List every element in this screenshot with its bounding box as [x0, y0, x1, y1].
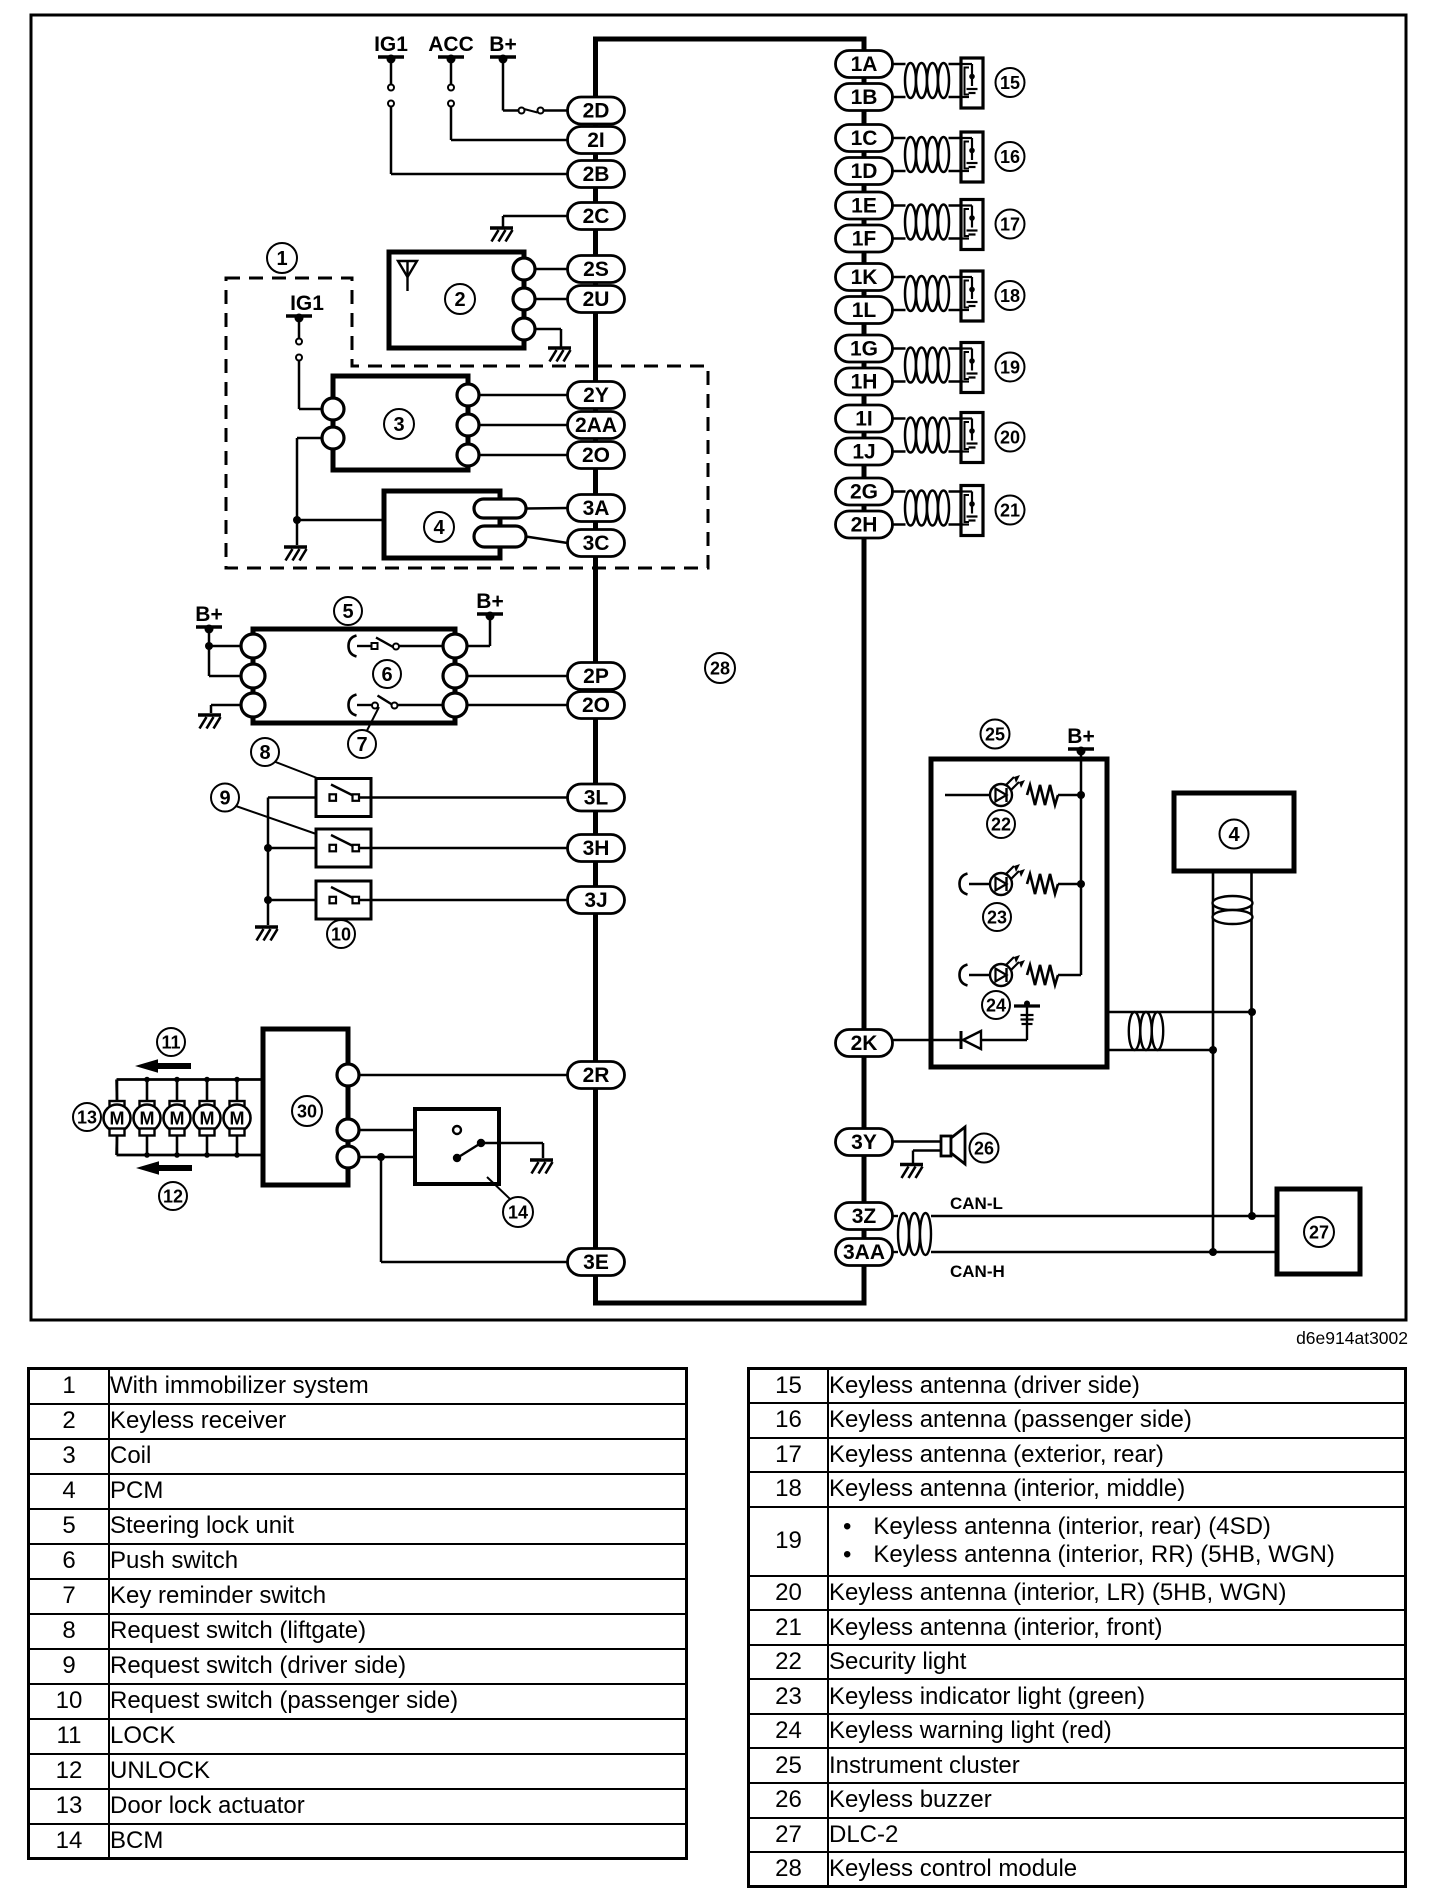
svg-text:2AA: 2AA	[575, 414, 617, 437]
svg-text:22: 22	[991, 814, 1011, 834]
svg-text:2R: 2R	[583, 1064, 610, 1087]
svg-text:2Y: 2Y	[583, 384, 609, 407]
svg-text:2G: 2G	[850, 481, 878, 504]
wire 3AA CAN-H	[893, 1251, 1278, 1253]
svg-text:21: 21	[1000, 500, 1020, 520]
PCM oval pin upper	[474, 499, 526, 518]
keyless antenna 15	[891, 58, 983, 108]
wire coil to 2AA	[479, 424, 568, 427]
svg-text:3AA: 3AA	[843, 1241, 885, 1264]
LOCK arrow 11	[135, 1059, 191, 1073]
junction cluster CAN-H	[1209, 1046, 1217, 1054]
svg-text:B+: B+	[195, 603, 222, 626]
svg-text:3A: 3A	[583, 497, 610, 520]
junction CAN-H	[1209, 1248, 1217, 1256]
svg-text:8: 8	[259, 742, 270, 764]
door lock pin 3	[337, 1146, 359, 1168]
wire steering to 2O	[467, 704, 568, 707]
BCM 14 box	[415, 1109, 499, 1184]
security light row wire	[945, 794, 1081, 797]
svg-text:4: 4	[1228, 824, 1240, 846]
coil left pin 2	[322, 427, 344, 449]
door lock motor M4	[194, 1077, 221, 1158]
connector 1K (right)	[836, 264, 893, 291]
PCM 4 label left	[424, 512, 454, 542]
BCM switch contacts	[453, 1126, 485, 1162]
switch on IG1 line	[388, 85, 394, 107]
instrument cluster 25 label	[981, 720, 1010, 749]
connector 1D (right)	[836, 158, 893, 185]
svg-text:B+: B+	[489, 33, 516, 56]
steering left pin 2	[241, 664, 265, 688]
immobilizer 1 label	[267, 243, 297, 273]
keyless antenna 21 label	[996, 496, 1025, 525]
wire door lock to BCM lower	[359, 1156, 453, 1159]
UNLOCK arrow 12	[136, 1161, 192, 1175]
connector 3L (left)	[568, 784, 625, 811]
connector 3E (left)	[568, 1249, 625, 1276]
terminal B+ cluster	[1067, 725, 1094, 756]
connector 2G (right)	[836, 478, 893, 505]
wire steering to 2P	[467, 675, 568, 678]
cluster CAN wire upper	[1107, 1011, 1252, 1013]
svg-text:4: 4	[433, 517, 445, 539]
svg-text:2H: 2H	[851, 514, 878, 537]
wire ACC upper	[450, 59, 453, 84]
svg-text:15: 15	[1000, 73, 1020, 93]
BCM 14 label	[487, 1177, 510, 1199]
svg-text:2D: 2D	[583, 100, 610, 123]
wire 3Z CAN-L	[893, 1215, 1278, 1217]
terminal B+ steering right	[476, 590, 503, 621]
svg-text:14: 14	[508, 1202, 528, 1222]
svg-text:12: 12	[163, 1186, 183, 1206]
svg-text:3Z: 3Z	[852, 1205, 877, 1228]
security light 22 label	[987, 810, 1015, 838]
keyless receiver 2 label	[445, 284, 475, 314]
connector 1F (right)	[836, 225, 893, 252]
svg-text:23: 23	[987, 907, 1007, 927]
coil right pin 2	[457, 414, 479, 436]
wire 3L row left	[268, 796, 329, 799]
wire switch to 2D	[544, 109, 568, 112]
svg-text:3E: 3E	[583, 1251, 609, 1274]
request switch common ground wire	[267, 798, 270, 926]
junction B+ steering	[205, 642, 213, 650]
junction switch9	[264, 844, 272, 852]
wire 3H row left	[268, 847, 329, 850]
svg-text:10: 10	[331, 924, 351, 944]
resistor security light	[1027, 785, 1058, 805]
wire ACC to 2I	[451, 107, 568, 141]
legend table right	[747, 1367, 1407, 1888]
key reminder switch 7	[349, 695, 444, 716]
svg-text:28: 28	[710, 658, 730, 678]
wire diode to sounder	[981, 1006, 1027, 1040]
ground request switches	[255, 927, 278, 941]
ground below coil	[284, 547, 307, 561]
wire B+ to steering pins	[209, 629, 242, 676]
connector 3A (left)	[568, 495, 625, 522]
wire IG1 lower	[391, 107, 568, 175]
steering right pin 2	[443, 664, 467, 688]
DLC-2 27 label	[1304, 1217, 1334, 1247]
steering lock 5 label	[334, 597, 362, 625]
steering left pin 3	[241, 693, 265, 717]
coil right pin 1	[457, 384, 479, 406]
connector 2I (left)	[568, 127, 625, 154]
wire 3J row left	[268, 899, 329, 902]
svg-text:20: 20	[1000, 427, 1020, 447]
connector 2O (left)	[568, 442, 625, 469]
coil left pin 1	[322, 398, 344, 420]
request switch driver 9 label	[233, 805, 322, 836]
PCM oval pin lower	[474, 526, 526, 547]
receiver pin 1	[513, 258, 535, 280]
switch on ACC line	[448, 85, 454, 107]
connector 2O (left)	[568, 692, 625, 719]
switch on immobilizer IG1 line	[296, 339, 302, 361]
svg-text:2O: 2O	[582, 694, 610, 717]
wire IG1 to 2B	[390, 59, 393, 84]
request switch driver 9	[316, 829, 371, 867]
steering right pin 3	[443, 693, 467, 717]
svg-text:13: 13	[77, 1107, 97, 1127]
svg-text:1I: 1I	[855, 408, 873, 431]
cluster CAN wire lower	[1107, 1049, 1213, 1051]
cluster sounder ground symbol	[1014, 1001, 1040, 1025]
connector 2R (left)	[568, 1062, 625, 1089]
indicator light row wire	[960, 874, 1082, 895]
door lock motor M1	[104, 1080, 131, 1156]
svg-text:1L: 1L	[852, 299, 877, 322]
wire switch9 to 3H	[359, 847, 568, 850]
connector 2H (right)	[836, 511, 893, 538]
wire IG1 immobilizer upper	[298, 318, 301, 338]
keyless antenna 20 label	[996, 423, 1025, 452]
resistor warning light	[1027, 965, 1058, 985]
terminal IG1	[374, 33, 408, 64]
svg-text:30: 30	[297, 1101, 317, 1121]
svg-text:1K: 1K	[851, 266, 878, 289]
PCM 4 label right	[1220, 820, 1249, 849]
junction BCM/3E	[377, 1153, 385, 1161]
svg-text:5: 5	[342, 601, 353, 623]
door lock pin 1	[337, 1064, 359, 1086]
svg-text:M: M	[230, 1109, 245, 1129]
svg-text:1A: 1A	[851, 53, 878, 76]
wire PCM to 3A	[526, 507, 568, 510]
keyless buzzer 26 label	[970, 1134, 999, 1163]
wire B+ right to steering	[467, 616, 490, 646]
PCM 4 box left	[384, 491, 500, 558]
twisted pair CAN	[898, 1213, 931, 1255]
keyless antenna 19	[891, 343, 983, 393]
svg-text:1E: 1E	[851, 195, 877, 218]
svg-text:2U: 2U	[583, 288, 610, 311]
connector 2B (left)	[568, 161, 625, 188]
push switch 6 label	[373, 660, 401, 688]
connector 2AA (left)	[568, 412, 625, 439]
steering left pin 1	[241, 634, 265, 658]
svg-text:M: M	[110, 1109, 125, 1129]
svg-text:3Y: 3Y	[851, 1131, 877, 1154]
connector 2U (left)	[568, 286, 625, 313]
svg-text:1H: 1H	[851, 371, 878, 394]
wire B+ to switch	[503, 59, 519, 111]
connector 1E (right)	[836, 192, 893, 219]
wire coil to 2Y	[479, 394, 568, 397]
connector 2C (left)	[568, 203, 625, 230]
request switch liftgate 8	[316, 779, 371, 817]
twisted pair cluster	[1129, 1012, 1163, 1050]
svg-text:2S: 2S	[583, 258, 609, 281]
svg-text:1B: 1B	[851, 86, 878, 109]
DLC-2 27 box	[1277, 1189, 1360, 1274]
keyless antenna 16	[891, 132, 983, 182]
cluster B+ bus wire	[1080, 751, 1083, 975]
svg-text:2C: 2C	[583, 205, 610, 228]
keyless antenna 19 label	[996, 353, 1025, 382]
ground below receiver	[548, 348, 571, 362]
security light 22	[990, 775, 1025, 806]
connector 1G (right)	[836, 335, 893, 362]
CAN vertical wire left	[1212, 871, 1215, 1252]
legend table left	[27, 1367, 688, 1860]
door lock motor M2	[134, 1077, 161, 1158]
svg-text:ACC: ACC	[428, 33, 474, 56]
svg-text:2B: 2B	[583, 163, 610, 186]
svg-text:3C: 3C	[583, 532, 610, 555]
svg-text:18: 18	[1000, 286, 1020, 306]
svg-text:1J: 1J	[852, 441, 875, 464]
connector 3H (left)	[568, 835, 625, 862]
svg-text:1G: 1G	[850, 338, 878, 361]
svg-text:3J: 3J	[584, 889, 607, 912]
svg-text:27: 27	[1309, 1222, 1329, 1242]
door lock pin 2	[337, 1119, 359, 1141]
keyless antenna 20	[891, 413, 983, 463]
svg-text:25: 25	[985, 724, 1005, 744]
svg-text:2K: 2K	[851, 1032, 878, 1055]
steering lock unit 5 box	[253, 629, 455, 723]
steering right pin 1	[443, 634, 467, 658]
connector 1H (right)	[836, 368, 893, 395]
connector 1J (right)	[836, 438, 893, 465]
svg-text:2P: 2P	[583, 665, 609, 688]
door lock actuator 13 label	[73, 1103, 101, 1131]
svg-text:IG1: IG1	[290, 292, 324, 315]
UNLOCK arrow 12 label	[159, 1182, 187, 1210]
terminal B+ top	[489, 33, 516, 64]
keyless antenna 15 label	[996, 68, 1025, 97]
antenna symbol in receiver	[398, 261, 417, 291]
svg-text:1: 1	[276, 248, 287, 270]
terminal IG1 immobilizer	[286, 292, 324, 323]
wire switch8 to 3L	[359, 796, 568, 799]
svg-text:6: 6	[381, 664, 392, 686]
svg-text:9: 9	[219, 788, 230, 810]
connector 1B (right)	[836, 84, 893, 111]
wire 2K to diode	[893, 1039, 962, 1042]
keyless receiver U2 box	[389, 252, 524, 348]
wire 2C to ground	[503, 216, 568, 227]
svg-text:2: 2	[454, 289, 465, 311]
keyless antenna 17 label	[996, 210, 1025, 239]
wire immobilizer IG1 to coil	[299, 361, 322, 410]
request switch passenger 10	[316, 881, 371, 919]
keyless buzzer 26	[941, 1127, 965, 1164]
wire receiver pin1 to 2S	[535, 268, 568, 271]
ground BCM	[530, 1160, 553, 1174]
svg-text:7: 7	[356, 734, 367, 756]
keyless warning light 24	[990, 955, 1025, 986]
svg-text:B+: B+	[1067, 725, 1094, 748]
LOCK arrow 11 label	[157, 1028, 185, 1056]
svg-text:1C: 1C	[851, 127, 878, 150]
ground steering left	[198, 715, 221, 729]
door lock actuator rails	[117, 1080, 264, 1156]
instrument cluster 25 box	[931, 759, 1107, 1067]
wire 3Y to buzzer	[893, 1142, 942, 1165]
door lock module 30 label	[292, 1096, 322, 1126]
wire coil pin2 to PCM and ground	[297, 438, 384, 545]
svg-text:3L: 3L	[584, 787, 609, 810]
connector 3C (left)	[568, 530, 625, 557]
connector 3J (left)	[568, 887, 625, 914]
keyless antenna 17	[891, 200, 983, 250]
switch on B+ line	[519, 108, 544, 114]
svg-text:IG1: IG1	[374, 33, 408, 56]
keyless antenna 18	[891, 271, 983, 321]
keyless antenna 18 label	[996, 281, 1025, 310]
connector 3Z (right)	[836, 1203, 893, 1230]
keyless warning light 24 label	[982, 991, 1010, 1019]
svg-text:M: M	[140, 1109, 155, 1129]
svg-text:B+: B+	[476, 590, 503, 613]
wire coil to 2O	[479, 454, 568, 457]
wire junction to 3E	[381, 1157, 568, 1262]
junction indicator light	[1077, 880, 1085, 888]
push switch 6	[349, 636, 444, 657]
svg-text:2O: 2O	[582, 444, 610, 467]
svg-text:26: 26	[974, 1138, 994, 1158]
svg-text:M: M	[200, 1109, 215, 1129]
request switch passenger 10 label	[327, 920, 355, 948]
wire receiver pin2 to 2U	[535, 298, 568, 301]
connector 3Y (right)	[836, 1129, 893, 1156]
svg-text:1D: 1D	[851, 160, 878, 183]
terminal ACC	[428, 33, 474, 64]
receiver pin 2	[513, 288, 535, 310]
keyless antenna 21	[891, 486, 983, 536]
svg-text:17: 17	[1000, 214, 1020, 234]
CAN vertical wire right	[1250, 871, 1253, 1216]
key reminder switch 7 label	[367, 707, 379, 731]
connector 1I (right)	[836, 405, 893, 432]
svg-text:M: M	[170, 1109, 185, 1129]
wire PCM to 3C	[526, 537, 568, 544]
keyless control module 28 label	[705, 653, 735, 683]
junction switch10	[264, 896, 272, 904]
keyless control module 28 outline	[596, 39, 865, 1303]
PCM 4 box right	[1174, 793, 1294, 871]
immobilizer system 1 dashed outline	[226, 278, 708, 568]
connector 1C (right)	[836, 125, 893, 152]
door lock motor M3	[164, 1077, 191, 1158]
svg-text:CAN-L: CAN-L	[950, 1194, 1003, 1213]
connector 1L (right)	[836, 297, 893, 324]
junction cluster CAN-L	[1248, 1008, 1256, 1016]
wire BCM switch to ground	[481, 1143, 543, 1158]
wire switch10 to 3J	[359, 899, 568, 902]
receiver pin 3	[513, 318, 535, 340]
svg-text:16: 16	[1000, 147, 1020, 167]
connector 2K (right)	[836, 1030, 893, 1057]
svg-text:2I: 2I	[587, 129, 605, 152]
wire receiver pin3 to ground	[535, 329, 561, 347]
svg-text:24: 24	[986, 995, 1006, 1015]
connector 2D (left)	[568, 97, 625, 124]
connector 3AA (right)	[836, 1239, 893, 1266]
svg-text:19: 19	[1000, 357, 1020, 377]
junction coil/PCM/ground	[293, 516, 301, 524]
coil 3 box	[333, 376, 468, 470]
wire door lock to BCM upper	[359, 1129, 453, 1132]
junction CAN-L	[1248, 1212, 1256, 1220]
svg-text:CAN-H: CAN-H	[950, 1262, 1005, 1281]
svg-text:3H: 3H	[583, 837, 610, 860]
keyless antenna 16 label	[996, 142, 1025, 171]
diode in cluster	[961, 1031, 981, 1049]
wire door lock to 2R	[359, 1074, 568, 1077]
connector 2P (left)	[568, 663, 625, 690]
connector 2Y (left)	[568, 382, 625, 409]
twisted pair below PCM	[1213, 896, 1253, 924]
request switch liftgate 8 label	[273, 761, 317, 778]
svg-text:11: 11	[161, 1032, 180, 1052]
svg-text:3: 3	[393, 414, 404, 436]
keyless indicator light 23	[990, 864, 1025, 895]
junction security light	[1077, 791, 1085, 799]
ground buzzer	[900, 1165, 923, 1179]
door lock module 30 box	[263, 1029, 348, 1185]
svg-text:d6e914at3002: d6e914at3002	[1296, 1328, 1408, 1348]
ground at 2C	[490, 228, 513, 242]
svg-text:1F: 1F	[852, 228, 877, 251]
coil right pin 3	[457, 444, 479, 466]
keyless indicator light 23 label	[983, 903, 1011, 931]
door lock motor M5	[224, 1077, 251, 1158]
wire steering pin3 to ground	[211, 705, 242, 713]
terminal B+ steering left	[195, 603, 222, 634]
connector 1A (right)	[836, 51, 893, 78]
diagram border frame	[31, 15, 1406, 1320]
resistor indicator light	[1027, 874, 1058, 894]
connector 2S (left)	[568, 256, 625, 283]
warning light row wire	[960, 965, 1082, 986]
coil 3 label	[384, 409, 414, 439]
